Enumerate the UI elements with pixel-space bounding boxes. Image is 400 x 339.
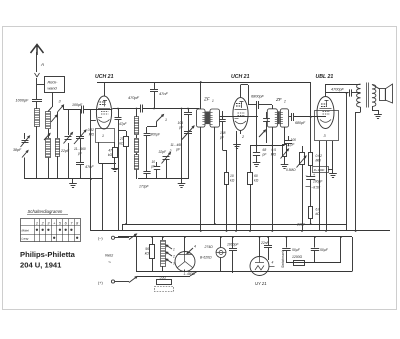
capacitor 173pF <box>143 171 150 173</box>
ground U2 cathode <box>236 140 238 145</box>
ground 68pF <box>256 158 258 163</box>
svg-text:kΩ: kΩ <box>316 212 321 216</box>
svg-text:204 U, 1941: 204 U, 1941 <box>20 261 62 270</box>
switch mains b <box>115 281 129 283</box>
capacitor across ZF2 primary <box>266 112 268 119</box>
svg-text:4700pF: 4700pF <box>331 88 345 92</box>
voltage selector drum <box>175 252 195 272</box>
svg-text:UCH 21: UCH 21 <box>231 74 250 80</box>
resistor 0.62M&#937; grid leak <box>310 82 312 152</box>
potentiometer 0.5M&#937; volume <box>283 145 287 157</box>
trimmer capacitor 22pF <box>68 110 70 136</box>
svg-text:100pF: 100pF <box>72 103 83 107</box>
capacitor 104pF ZF1 <box>188 109 190 113</box>
svg-text:Rₕ·100Ω: Rₕ·100Ω <box>314 168 324 172</box>
svg-text:47pF: 47pF <box>119 122 128 126</box>
svg-text:kΩ: kΩ <box>119 142 124 146</box>
svg-text:0.5MΩ: 0.5MΩ <box>286 168 296 172</box>
capacitor 47nF decoupling <box>154 82 156 89</box>
wire band column <box>57 112 59 138</box>
svg-text:1: 1 <box>36 221 38 225</box>
speaker <box>380 89 386 101</box>
wire ZF1 to U2 grid <box>220 116 249 118</box>
resistor 10k&#937; <box>226 150 228 172</box>
wire U2 left pin down <box>236 131 238 231</box>
svg-text:4: 4 <box>272 261 274 265</box>
svg-text:1: 1 <box>102 134 104 138</box>
svg-text:800pF: 800pF <box>151 132 161 136</box>
svg-text:Rück-: Rück- <box>48 81 59 85</box>
coil L2a <box>46 112 51 129</box>
svg-text:1: 1 <box>212 99 214 103</box>
svg-text:2: 2 <box>169 149 172 153</box>
capacitor 50&#181;F a <box>286 237 288 248</box>
wire heater bus <box>118 236 352 238</box>
capacitor 47pF cathode <box>118 109 120 118</box>
wire ZF2 primary down <box>272 127 274 231</box>
ground oscillator <box>181 179 183 184</box>
variable capacitor 11...460pF tuning gang 2 <box>184 131 192 133</box>
switch 1 oscillator <box>157 115 164 122</box>
svg-text:100: 100 <box>291 138 297 142</box>
wire tone branch <box>302 164 304 231</box>
fusible box <box>155 287 174 292</box>
wire chassis bus <box>91 230 390 232</box>
svg-text:108: 108 <box>220 131 226 135</box>
svg-text:1: 1 <box>173 248 175 252</box>
tube U3 pin box <box>315 111 339 141</box>
coil L3 <box>56 139 60 157</box>
wire PSU right corner <box>352 237 354 272</box>
svg-text:11...460: 11...460 <box>170 143 182 147</box>
switch band change left <box>44 134 50 141</box>
svg-text:MΩ: MΩ <box>89 133 95 137</box>
wire AVC return bus <box>122 224 347 226</box>
oscillator coil L5 <box>136 153 138 155</box>
capacitor 100pF <box>81 106 83 114</box>
voltage selector dropper <box>161 241 166 267</box>
resistor choke 1200&#937; <box>294 261 305 266</box>
svg-text:10: 10 <box>230 174 234 178</box>
svg-text:kΩ: kΩ <box>254 179 259 183</box>
capacitor 4700pF <box>326 92 349 94</box>
svg-text:2: 2 <box>172 255 175 259</box>
wire pin box loop <box>98 142 100 164</box>
ground input <box>72 179 74 184</box>
resistor 60k&#937; diode load <box>250 146 252 173</box>
capacitor 470pF <box>140 105 142 113</box>
variable capacitor 11...460pF tuning gang 1 <box>80 110 82 137</box>
switch 2 and trimmer 32pF <box>163 156 170 158</box>
wire ZF2 left plate down <box>256 109 258 152</box>
output transformer primary <box>357 84 361 107</box>
svg-text:wand: wand <box>48 87 58 91</box>
wire cathode drop <box>118 120 120 231</box>
ground Ry <box>332 141 334 169</box>
svg-text:55Ω: 55Ω <box>160 275 167 279</box>
svg-text:0.82: 0.82 <box>88 128 95 132</box>
svg-text:(–): (–) <box>98 237 103 241</box>
svg-text:MΩ: MΩ <box>271 153 277 157</box>
svg-text:6800pF: 6800pF <box>251 95 265 99</box>
capacitor 50&#181;F b <box>314 237 316 248</box>
Rueckwand box <box>45 77 65 93</box>
capacitor 6800pF <box>248 104 257 106</box>
wire U1 plate to ZF1 <box>112 108 140 110</box>
wire U3 pins down <box>319 141 321 231</box>
wire Rueckwand down <box>52 93 54 108</box>
svg-text:kΩ: kΩ <box>108 153 113 157</box>
svg-text:(+): (+) <box>98 281 103 285</box>
svg-text:UY 21: UY 21 <box>255 281 267 286</box>
resistor 47k&#937; <box>113 148 118 158</box>
svg-text:1..480Ω: 1..480Ω <box>184 272 196 276</box>
svg-text:32pF: 32pF <box>159 150 168 154</box>
potentiometer 0.5M&#937; tone <box>302 146 304 152</box>
svg-text:1: 1 <box>165 118 167 122</box>
wire antenna to Rueckwand <box>37 84 45 86</box>
antenna <box>31 44 44 55</box>
svg-text:68: 68 <box>263 148 267 152</box>
svg-text:100µF: 100µF <box>313 180 323 184</box>
tube U2 pin 2 <box>240 131 242 135</box>
svg-text:4: 4 <box>194 245 196 249</box>
capacitor 108pF ZF1 secondary <box>222 111 224 119</box>
svg-text:38pF: 38pF <box>13 148 22 152</box>
svg-text:47: 47 <box>108 149 112 153</box>
svg-text:A: A <box>40 62 44 67</box>
wire PSU bottom bus <box>136 271 352 273</box>
capacitor 680pF coupling <box>289 116 291 118</box>
wire output cathode down <box>346 93 348 231</box>
svg-text:–8.5V: –8.5V <box>311 185 321 189</box>
svg-text:2: 2 <box>41 221 44 225</box>
ground pin box loop <box>114 164 116 169</box>
resistor 56k&#937; <box>152 237 154 245</box>
svg-text:kΩ: kΩ <box>230 179 235 183</box>
svg-text:Schalterdiagramm: Schalterdiagramm <box>28 209 63 214</box>
svg-text:UBL 21: UBL 21 <box>316 74 334 80</box>
svg-text:0.5: 0.5 <box>271 148 276 152</box>
svg-text:UCH 21: UCH 21 <box>95 74 114 80</box>
svg-text:Philips-Philetta: Philips-Philetta <box>20 250 76 259</box>
svg-text:27: 27 <box>119 137 124 141</box>
wire detector bus <box>250 145 285 147</box>
rectifier tube UY 21 <box>250 257 269 276</box>
trimmer 10pF <box>156 162 158 167</box>
trimmer capacitor 38pF <box>24 133 26 139</box>
svg-text:1000pF: 1000pF <box>227 243 239 247</box>
trimmer arrow ZF2 <box>259 130 266 137</box>
svg-text:10: 10 <box>151 160 155 164</box>
voltage mark -8.5V <box>306 186 311 188</box>
resistor Ry 100&#937; in box <box>313 167 329 173</box>
svg-text:~: ~ <box>108 260 111 266</box>
svg-text:104: 104 <box>177 121 183 125</box>
svg-text:11...460: 11...460 <box>74 147 86 151</box>
coil L2b <box>46 139 51 158</box>
svg-text:1000pF: 1000pF <box>16 99 30 103</box>
wire U2 plate <box>248 116 258 118</box>
wire AVC vertical <box>90 110 92 232</box>
output transformer secondary <box>372 85 376 107</box>
oscillator bottom wire <box>138 178 188 180</box>
wire UBL plate to transformer <box>326 84 361 86</box>
svg-text:47nF: 47nF <box>85 165 94 169</box>
svg-text:0.62: 0.62 <box>316 154 323 158</box>
svg-text:680pF: 680pF <box>295 121 306 125</box>
wire PSU left vertical <box>136 237 138 272</box>
svg-text:2: 2 <box>283 100 286 104</box>
coil L1 antenna inline <box>35 109 40 127</box>
wire ZF2 secondary down <box>284 127 286 145</box>
capacitor 1000pF antenna <box>32 99 42 101</box>
mixer coupling coil <box>136 109 138 118</box>
wire ZF1 secondary down <box>214 127 216 224</box>
switch 4 <box>51 115 57 122</box>
tube U1 pin box <box>96 129 115 143</box>
svg-text:50µF: 50µF <box>292 248 301 252</box>
wire filter bottom <box>286 262 341 264</box>
oscillator coil L4 <box>136 135 138 138</box>
wire U1 cathode to AVC <box>91 120 96 122</box>
svg-text:B·620Ω: B·620Ω <box>200 255 212 259</box>
wire input top <box>64 109 82 111</box>
oscillator grid return <box>181 109 183 180</box>
wire ZF1 primary down <box>200 127 202 231</box>
wire antenna down <box>36 126 38 179</box>
svg-text:56: 56 <box>145 247 149 251</box>
capacitor 100pF detector <box>288 136 290 141</box>
wire transformer primary down <box>360 107 362 112</box>
svg-text:60: 60 <box>254 174 258 178</box>
capacitor 47nF input <box>80 139 82 162</box>
svg-text:Mittel: Mittel <box>22 229 30 233</box>
ground volume pot <box>284 160 286 165</box>
antenna connector break <box>35 73 40 77</box>
svg-text:173pF: 173pF <box>139 185 150 189</box>
svg-text:Siebdrossel: Siebdrossel <box>281 251 285 268</box>
wire plus bend to bus <box>190 272 197 277</box>
svg-text:274Ω: 274Ω <box>204 245 214 249</box>
input ground bus wire <box>25 178 102 180</box>
resistor 27k&#937; <box>118 130 126 132</box>
switch mains a <box>115 237 129 239</box>
svg-text:47nF: 47nF <box>159 91 168 96</box>
wire anode supply top bus <box>97 82 311 84</box>
switch below 38pF <box>22 151 28 158</box>
svg-text:6.0: 6.0 <box>316 208 321 212</box>
svg-text:MΩ: MΩ <box>316 159 322 163</box>
selector tap 4 arrow <box>187 248 193 254</box>
transformer core <box>366 83 368 108</box>
svg-text:kΩ: kΩ <box>145 252 150 256</box>
ground speaker <box>372 107 374 111</box>
svg-text:1200Ω: 1200Ω <box>292 255 303 259</box>
capacitor 68pF to ground <box>253 152 260 154</box>
switch 3 <box>58 105 64 112</box>
resistor 6.0k&#937; <box>309 207 313 219</box>
svg-text:50µF: 50µF <box>320 248 329 252</box>
svg-text:Netz: Netz <box>105 253 113 258</box>
capacitor 800pF <box>146 127 148 133</box>
svg-text:Lang: Lang <box>22 237 29 241</box>
svg-text:470pF: 470pF <box>128 95 140 100</box>
UY 21 pin 4 <box>269 266 275 268</box>
